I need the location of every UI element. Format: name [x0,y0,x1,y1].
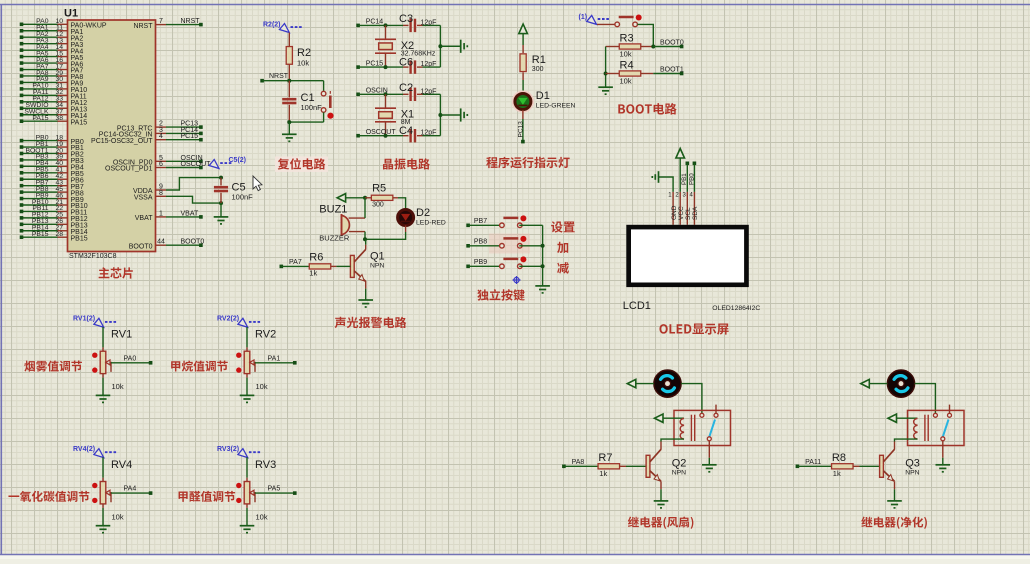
wire U1 pin 20 (net BOOT1) [22,152,58,154]
origin marker [513,276,521,284]
pushbutton PB8 [500,238,522,248]
wire buzzer to collector junction [364,232,366,240]
node OSCIN junction [384,92,388,96]
svg-text:RV3(2): RV3(2) [217,446,239,453]
wire U1 pin 5 OSCIN [156,160,167,162]
potentiometer RV3 10k [244,482,250,504]
wire power to coil [663,417,684,419]
wire U1 pin 45 (net PB8) [22,191,58,193]
svg-text:R5: R5 [372,183,386,195]
terminal PA8 [562,465,566,469]
svg-text:NPN: NPN [370,263,384,270]
svg-text:RV1: RV1 [111,329,132,341]
svg-text:10k: 10k [256,512,268,521]
svg-text:NRST: NRST [133,23,153,30]
wire U1 pin 32 (net PA11) [22,94,58,96]
label OLED显示屏 [659,323,728,334]
wire U1 pin 22 (net PB11) [22,210,58,212]
wire U1 pin 2 PC13 [156,126,167,128]
relay RL coil box [908,410,965,445]
svg-text:10k: 10k [620,50,632,59]
power symbol buzzer circuit [337,194,346,202]
wire U1 pin 15 (net PA5) [22,56,58,58]
svg-text:Q2: Q2 [672,457,687,469]
wire button PB8 to common [519,245,542,247]
power symbol motor [861,379,870,387]
probe RV1(2) [94,318,118,327]
terminal BOOT1 [680,72,684,76]
selection highlight PB8 button [489,234,530,254]
wire OSCOUT row [358,135,403,137]
wire U1 pin 31 (net PA10) [22,88,58,90]
ground crystal (rotated) [461,108,468,121]
wire power to OLED pin2 [679,158,681,192]
svg-text:R7: R7 [598,452,612,464]
resistor R2 10k [286,47,292,65]
label 继电器(风扇) [628,517,694,529]
svg-text:PA1: PA1 [268,355,281,362]
wire probe to RV3 [246,457,248,478]
wire coil bottom to collector [895,439,918,441]
wire U1 pin 1 VBAT [156,216,167,218]
resistor R5 300 [365,197,371,199]
svg-text:C4: C4 [399,125,413,137]
svg-text:1k: 1k [833,469,841,478]
node R4 left junction [604,72,608,76]
svg-text:PC15-OSC32_OUT: PC15-OSC32_OUT [91,138,153,145]
svg-text:PC15: PC15 [366,60,384,67]
wire U1 pin 38 (net PA15) [22,120,58,122]
svg-text:BOOT0: BOOT0 [129,243,153,250]
wire relay to ground [942,441,944,458]
node R5 left junction [363,196,367,200]
svg-text:SCL: SCL [685,207,692,220]
svg-text:RV2(2): RV2(2) [217,316,239,323]
power symbol relay coil [888,414,897,422]
probe RV2(2) [238,318,262,327]
wire power to R5 node [346,197,365,199]
svg-text:PB15: PB15 [71,235,88,242]
pushbutton PB9 [500,259,522,269]
wire SCL (net PB1) [686,163,688,192]
pushbutton BOOT [615,17,637,27]
svg-text:BOOT0: BOOT0 [181,239,205,246]
svg-text:PB15: PB15 [32,231,49,238]
svg-text:R6: R6 [309,252,323,264]
svg-text:R2: R2 [297,47,311,59]
svg-text:8: 8 [159,190,163,197]
node PC14 junction [384,23,388,27]
wire PC14 row [358,24,403,26]
terminal OSCOUT [356,134,360,138]
label 一氧化碳值调节 [8,491,89,502]
svg-text:LED-RED: LED-RED [416,220,446,227]
capacitor C6 12pF [411,60,415,73]
wire U1 pin 41 (net PB5) [22,172,58,174]
wire U1 pin 4 PC15 [156,139,167,141]
ground below C5 [214,217,229,224]
wire motor to relay [681,384,702,414]
node crystal right junction [438,113,442,117]
svg-text:NPN: NPN [672,470,686,477]
potentiometer RV4 10k [100,482,106,504]
svg-text:OSCOUT_PD1: OSCOUT_PD1 [105,166,153,173]
svg-text:U1: U1 [64,8,78,20]
label 声光报警电路 [335,317,407,328]
label 甲烷值调节 [171,360,228,371]
node crystal right junction [438,44,442,48]
wire button to C1 bottom [323,112,325,122]
wire U1 pin 3 PC14 [156,132,167,134]
motor fan 继电器(风扇) [654,370,681,397]
wire U1 pin 21 (net PB10) [22,204,58,206]
svg-text:C3: C3 [399,13,413,25]
wire U1 pin 12 (net PA2) [22,36,58,38]
wire to ground reset [288,122,290,134]
ground reset circuit [282,134,297,141]
node PB8 junction [541,244,545,248]
svg-text:R1: R1 [532,54,546,66]
wire U1 pin 25 (net PB12) [22,217,58,219]
wire U1 pin 37 (net SWCLK) [22,114,58,116]
relay core [925,415,928,441]
relay switch blade [943,420,949,437]
label 设置 [551,221,575,232]
relay bottom pin [707,437,711,441]
display LCD1 OLED12864I2C [626,225,749,287]
node NRST junction [287,79,291,83]
wire U1 pin 42 (net PB6) [22,178,58,180]
ground buttons [535,286,550,293]
terminal PA4 [149,491,153,495]
wire RV4 wiper to PA4 [111,492,151,494]
label 独立按键 [477,289,524,301]
wire U1 pin 33 (net PA12) [22,101,58,103]
wire U1 pin 46 (net PB9) [22,198,58,200]
terminal NRST [260,79,264,83]
svg-text:VCC: VCC [678,206,685,220]
label 主芯片 [99,267,133,278]
svg-text:BUZ1: BUZ1 [319,204,347,216]
svg-text:OSCOUT: OSCOUT [366,129,397,136]
wire PA11 to R8 [797,465,831,467]
svg-text:44: 44 [157,239,165,246]
terminal PC15 [356,65,360,69]
capacitor C1 100nF [288,81,290,98]
potentiometer RV1 10k [100,351,106,373]
motor fan 继电器(净化) [887,370,914,397]
wire U1 pin 11 (net PA1) [22,30,58,32]
resistor R3 10k [606,46,620,48]
transistor Q3 NPN [880,455,884,477]
node PB9 junction [541,264,545,268]
wire U1 pin 29 (net PA8) [22,75,58,77]
wire button branch down [323,81,325,92]
svg-text:10k: 10k [297,59,309,68]
svg-text:28: 28 [55,231,63,238]
resistor R8 1k [832,464,854,469]
svg-text:PA4: PA4 [124,486,137,493]
wire RV2 to ground [246,374,248,378]
wire PB9 to button [468,265,500,267]
svg-text:7: 7 [159,18,163,25]
label 晶振电路 [383,158,430,169]
wire RV4 to ground [102,504,104,508]
svg-text:300: 300 [372,202,384,209]
ground buzzer circuit [358,300,373,307]
svg-text:RV4(2): RV4(2) [73,446,95,453]
buzzer BUZ1 [342,215,350,234]
wire power to motor [869,383,887,385]
node OSCOUT junction [384,134,388,138]
wire U1 pin 9 VDDA to C5 [156,189,167,191]
svg-text:NPN: NPN [905,470,919,477]
svg-text:38: 38 [55,115,63,122]
wire common vertical buttons [542,225,544,286]
wire OSCIN row [358,93,403,95]
svg-text:PC15: PC15 [181,133,199,140]
wire U1 pin 44 BOOT0 [156,244,167,246]
svg-text:OLED12864I2C: OLED12864I2C [712,305,760,312]
svg-text:STM32F103C8: STM32F103C8 [69,253,117,260]
svg-text:PC13: PC13 [517,121,524,138]
ground RV1 [96,395,111,402]
wire U1 pin 34 (net SWDIO) [22,107,58,109]
wire U1 pin 39 (net PB3) [22,159,58,161]
terminal PB8 [466,244,470,248]
svg-text:6: 6 [159,161,163,168]
svg-text:10k: 10k [256,382,268,391]
svg-text:D2: D2 [416,207,430,219]
label 继电器(净化) [861,517,927,529]
pushbutton reset [321,91,330,112]
wire button PB9 to common [519,265,542,267]
wire buzzer top pin [349,217,365,219]
svg-text:100nF: 100nF [232,193,254,202]
svg-text:VBAT: VBAT [181,210,199,217]
power symbol relay coil [655,414,664,422]
svg-text:300: 300 [532,66,544,73]
wire C5 to ground [220,203,222,217]
potentiometer RV2 10k [244,351,250,373]
svg-text:12pF: 12pF [421,19,437,26]
wire power to motor [636,383,654,385]
wire to ground crystal [440,45,460,47]
op-amp U1 main chip STM32F103C8 body [68,20,156,252]
svg-text:12pF: 12pF [421,61,437,68]
svg-text:OSCOUT: OSCOUT [181,161,212,168]
svg-text:D1: D1 [536,90,550,102]
capacitor C3 12pF [411,19,415,32]
wire crystal right vertical [439,94,441,135]
terminal PC14 [356,24,360,28]
wire R5 to D2 [398,198,406,210]
relay coil [680,418,684,439]
ground Q2 emitter [654,501,669,508]
node C5 bottom junction [219,201,223,205]
transistor Q1 NPN [365,239,367,245]
svg-text:C6: C6 [399,57,413,69]
wire PA7 to R6 [281,265,309,267]
wire RV2 wiper to PA1 [255,362,295,364]
wire U1 pin 17 (net PA7) [22,69,58,71]
wire U1 pin 8 VSSA to C5 [156,195,167,197]
terminal PA7 [280,265,284,269]
terminal PA5 [293,491,297,495]
wire boot button to R3 junction [637,24,653,46]
probe RV4(2) [94,449,118,458]
svg-text:BOOT1: BOOT1 [660,66,684,73]
wire U1 pin 13 (net PA3) [22,43,58,45]
svg-text:LED-GREEN: LED-GREEN [536,103,576,110]
wire left vertical R3 R4 ground [605,47,607,88]
wire Q3 emitter to ground [894,481,896,489]
svg-text:10k: 10k [112,382,124,391]
terminal PA11 [796,465,800,469]
wire U1 pin 6 OSCOUT [156,167,167,169]
svg-text:PA15: PA15 [71,119,88,126]
wire PB7 to button [468,224,500,226]
wire U1 pin 18 (net PB0) [22,140,58,142]
wire SDA (net PB0) [693,163,695,192]
wire U1 pin 40 (net PB4) [22,165,58,167]
wire RV3 wiper to PA5 [255,492,295,494]
resistor R7 1k [598,464,620,469]
svg-text:PB1: PB1 [681,173,688,185]
svg-text:RV3: RV3 [255,459,276,471]
terminal PB9 [466,265,470,269]
svg-text:PB7: PB7 [474,218,487,225]
label 烟雾值调节 [24,361,82,372]
svg-text:PA8: PA8 [572,459,585,466]
label 加 [557,242,568,253]
relay switch blade [709,420,715,437]
mouse cursor [253,176,262,191]
resistor R4 10k [606,73,620,75]
svg-text:PB9: PB9 [474,259,487,266]
capacitor C4 12pF [411,129,415,142]
relay contact NO pin [948,413,952,417]
label 甲醛值调节 [179,491,236,502]
wire U1 pin 30 (net PA9) [22,81,58,83]
relay contact common pin [933,413,937,417]
ground crystal (rotated) [461,40,468,53]
relay core [691,415,694,441]
svg-text:VBAT: VBAT [135,215,153,222]
svg-text:1k: 1k [599,469,607,478]
wire NRST node [262,80,324,82]
wire PB8 to button [468,245,500,247]
node C5 top junction [219,176,223,180]
wire to ground crystal [440,114,460,116]
wire U1 pin 19 (net PB1) [22,146,58,148]
probe RV3(2) [238,449,262,458]
svg-text:PA7: PA7 [289,259,302,266]
wire power to coil [897,417,918,419]
ground relay contact [936,465,951,472]
wire U1 pin 7 NRST [156,24,167,26]
terminal SDA wire [693,162,697,166]
capacitor C5 100nF [220,178,222,186]
wire relay to ground [708,441,710,458]
svg-text:PB0: PB0 [688,173,695,185]
wire D1 to PC13 terminal [522,110,524,119]
terminal PC13 bottom [521,140,525,144]
svg-text:BUZZER: BUZZER [319,234,350,243]
label 程序运行指示灯 [486,157,569,169]
wire probe to boot button [597,23,615,25]
ground RV3 [240,526,255,533]
LED D1 LED-GREEN [513,92,533,112]
terminal PA1 [293,361,297,365]
terminal BOOT0 [680,45,684,49]
wire R4 to BOOT1 terminal [653,73,681,75]
wire RV1 to ground [102,374,104,378]
relay contact common pin [700,413,704,417]
svg-text:R4: R4 [620,60,634,72]
svg-text:(1): (1) [579,14,588,21]
wire probe to RV4 [102,457,104,478]
svg-text:PA15: PA15 [32,115,48,122]
ground BOOT circuit [598,87,613,94]
wire coil bottom to collector [661,439,684,441]
wire Q1 emitter to ground [365,281,367,289]
svg-text:12pF: 12pF [421,88,437,95]
power symbol for D1 [519,24,528,33]
LCD1 pins 1-4 [672,192,674,225]
pushbutton PB7 [500,218,522,228]
svg-text:PB8: PB8 [474,239,487,246]
wire PC15 row [358,66,403,68]
LED D2 LED-RED [398,210,414,226]
probe (1) [587,15,611,24]
label 复位电路 [275,157,328,172]
wire R3 to BOOT0 terminal [653,46,681,48]
capacitor C2 12pF [411,88,415,101]
terminal PB7 [466,224,470,228]
svg-text:C5(2): C5(2) [229,157,247,164]
wire U1 pin 26 (net PB13) [22,223,58,225]
power symbol OLED VCC [676,149,685,159]
node C1 bottom junction [287,120,291,124]
crystal X1 [385,94,387,108]
svg-text:BOOT0: BOOT0 [660,39,684,46]
wire RV1 wiper to PA0 [111,362,151,364]
power symbol motor [627,379,636,387]
svg-text:SDA: SDA [692,206,699,220]
label BOOT电路 [618,103,676,115]
wire button PB7 to common [519,224,542,226]
wire buzzer bottom pin [349,231,365,233]
wire U1 pin 16 (net PA6) [22,62,58,64]
svg-text:PC14: PC14 [366,19,384,26]
node collector junction [363,237,367,241]
svg-text:4: 4 [159,133,163,140]
ground relay contact [702,465,717,472]
terminal OSCIN [356,93,360,97]
svg-text:PA5: PA5 [268,486,281,493]
ground RV4 [96,526,111,533]
wire PA8 to R7 [564,465,598,467]
transistor Q2 NPN [646,455,650,477]
svg-text:10k: 10k [112,512,124,521]
wire U1 pin 28 (net PB15) [22,236,58,238]
wire D2 to collector node [405,226,407,233]
svg-text:VSSA: VSSA [134,195,153,202]
wire Q2 emitter to ground [660,481,662,489]
svg-text:NRST: NRST [181,18,201,25]
svg-text:1: 1 [159,210,163,217]
